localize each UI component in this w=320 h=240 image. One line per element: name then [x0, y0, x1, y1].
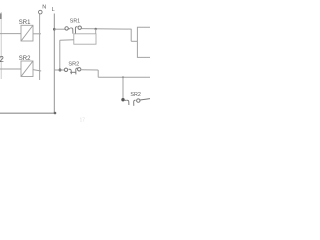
svg-text:L: L	[52, 7, 55, 13]
terminal N (circle)	[39, 10, 43, 14]
wire: bottom return line	[0, 112, 55, 114]
load box 1	[74, 34, 96, 44]
contact SR2 (middle, with bar)	[64, 68, 81, 75]
wire: loop horizontal to load box 1	[60, 39, 74, 41]
wire: lower horizontal run to right edge	[98, 76, 150, 78]
wire: SR2 contact to corner	[81, 69, 98, 71]
svg-text:N: N	[42, 5, 46, 11]
node label 1 (cut off at left edge)	[0, 13, 1, 19]
wire: drop to third contact	[122, 77, 124, 99]
wire: L main vertical bus	[53, 14, 55, 114]
wire: SR1 coil to N bus	[33, 33, 41, 35]
junction node at third contact	[121, 98, 124, 101]
wire: SR1 contact to step corner	[81, 28, 131, 31]
wire: branch 1 from left bus to SR1 coil	[0, 33, 21, 35]
relay coil SR1 (box with diagonal)	[21, 25, 33, 41]
svg-text:SR1: SR1	[19, 20, 31, 26]
junction node at bottom corner	[54, 112, 57, 115]
wire: loop vertical from SR2 branch up	[59, 40, 61, 69]
wire: L bus to SR2 contact	[54, 69, 64, 71]
svg-text:SR2: SR2	[19, 56, 31, 62]
junction node at L bus / SR2 contact branch	[59, 69, 62, 72]
wire: stub down into load box 1	[95, 29, 97, 34]
wire: N vertical bus	[39, 14, 41, 80]
wire: step across to load box 2	[131, 40, 137, 42]
svg-text:SR2: SR2	[68, 62, 79, 68]
junction node at x123 on lower run	[122, 76, 124, 78]
wire: down from corner x98	[97, 70, 99, 77]
junction node above load box 1	[95, 28, 97, 30]
wire: step down at x131	[130, 29, 132, 41]
junction node at L bus / SR1 contact branch	[53, 28, 56, 31]
load box 2 (cut off at right edge)	[137, 27, 150, 57]
relay coil SR2 (box with diagonal)	[21, 61, 33, 77]
svg-text:SR2: SR2	[130, 92, 141, 98]
wire: SR2 coil to N bus	[33, 70, 41, 71]
wire: left vertical bus (faint, cropped at left edge)	[0, 12, 2, 79]
svg-text:17: 17	[80, 118, 86, 124]
contact SR1 (normally-open relay contact)	[65, 26, 82, 34]
contact SR2 (bottom right)	[125, 99, 150, 106]
svg-text:SR1: SR1	[70, 18, 80, 24]
svg-text:2: 2	[0, 55, 4, 64]
wire: L bus to SR1 contact	[54, 28, 65, 30]
wire: branch 2 from left bus to SR2 coil	[0, 68, 21, 70]
